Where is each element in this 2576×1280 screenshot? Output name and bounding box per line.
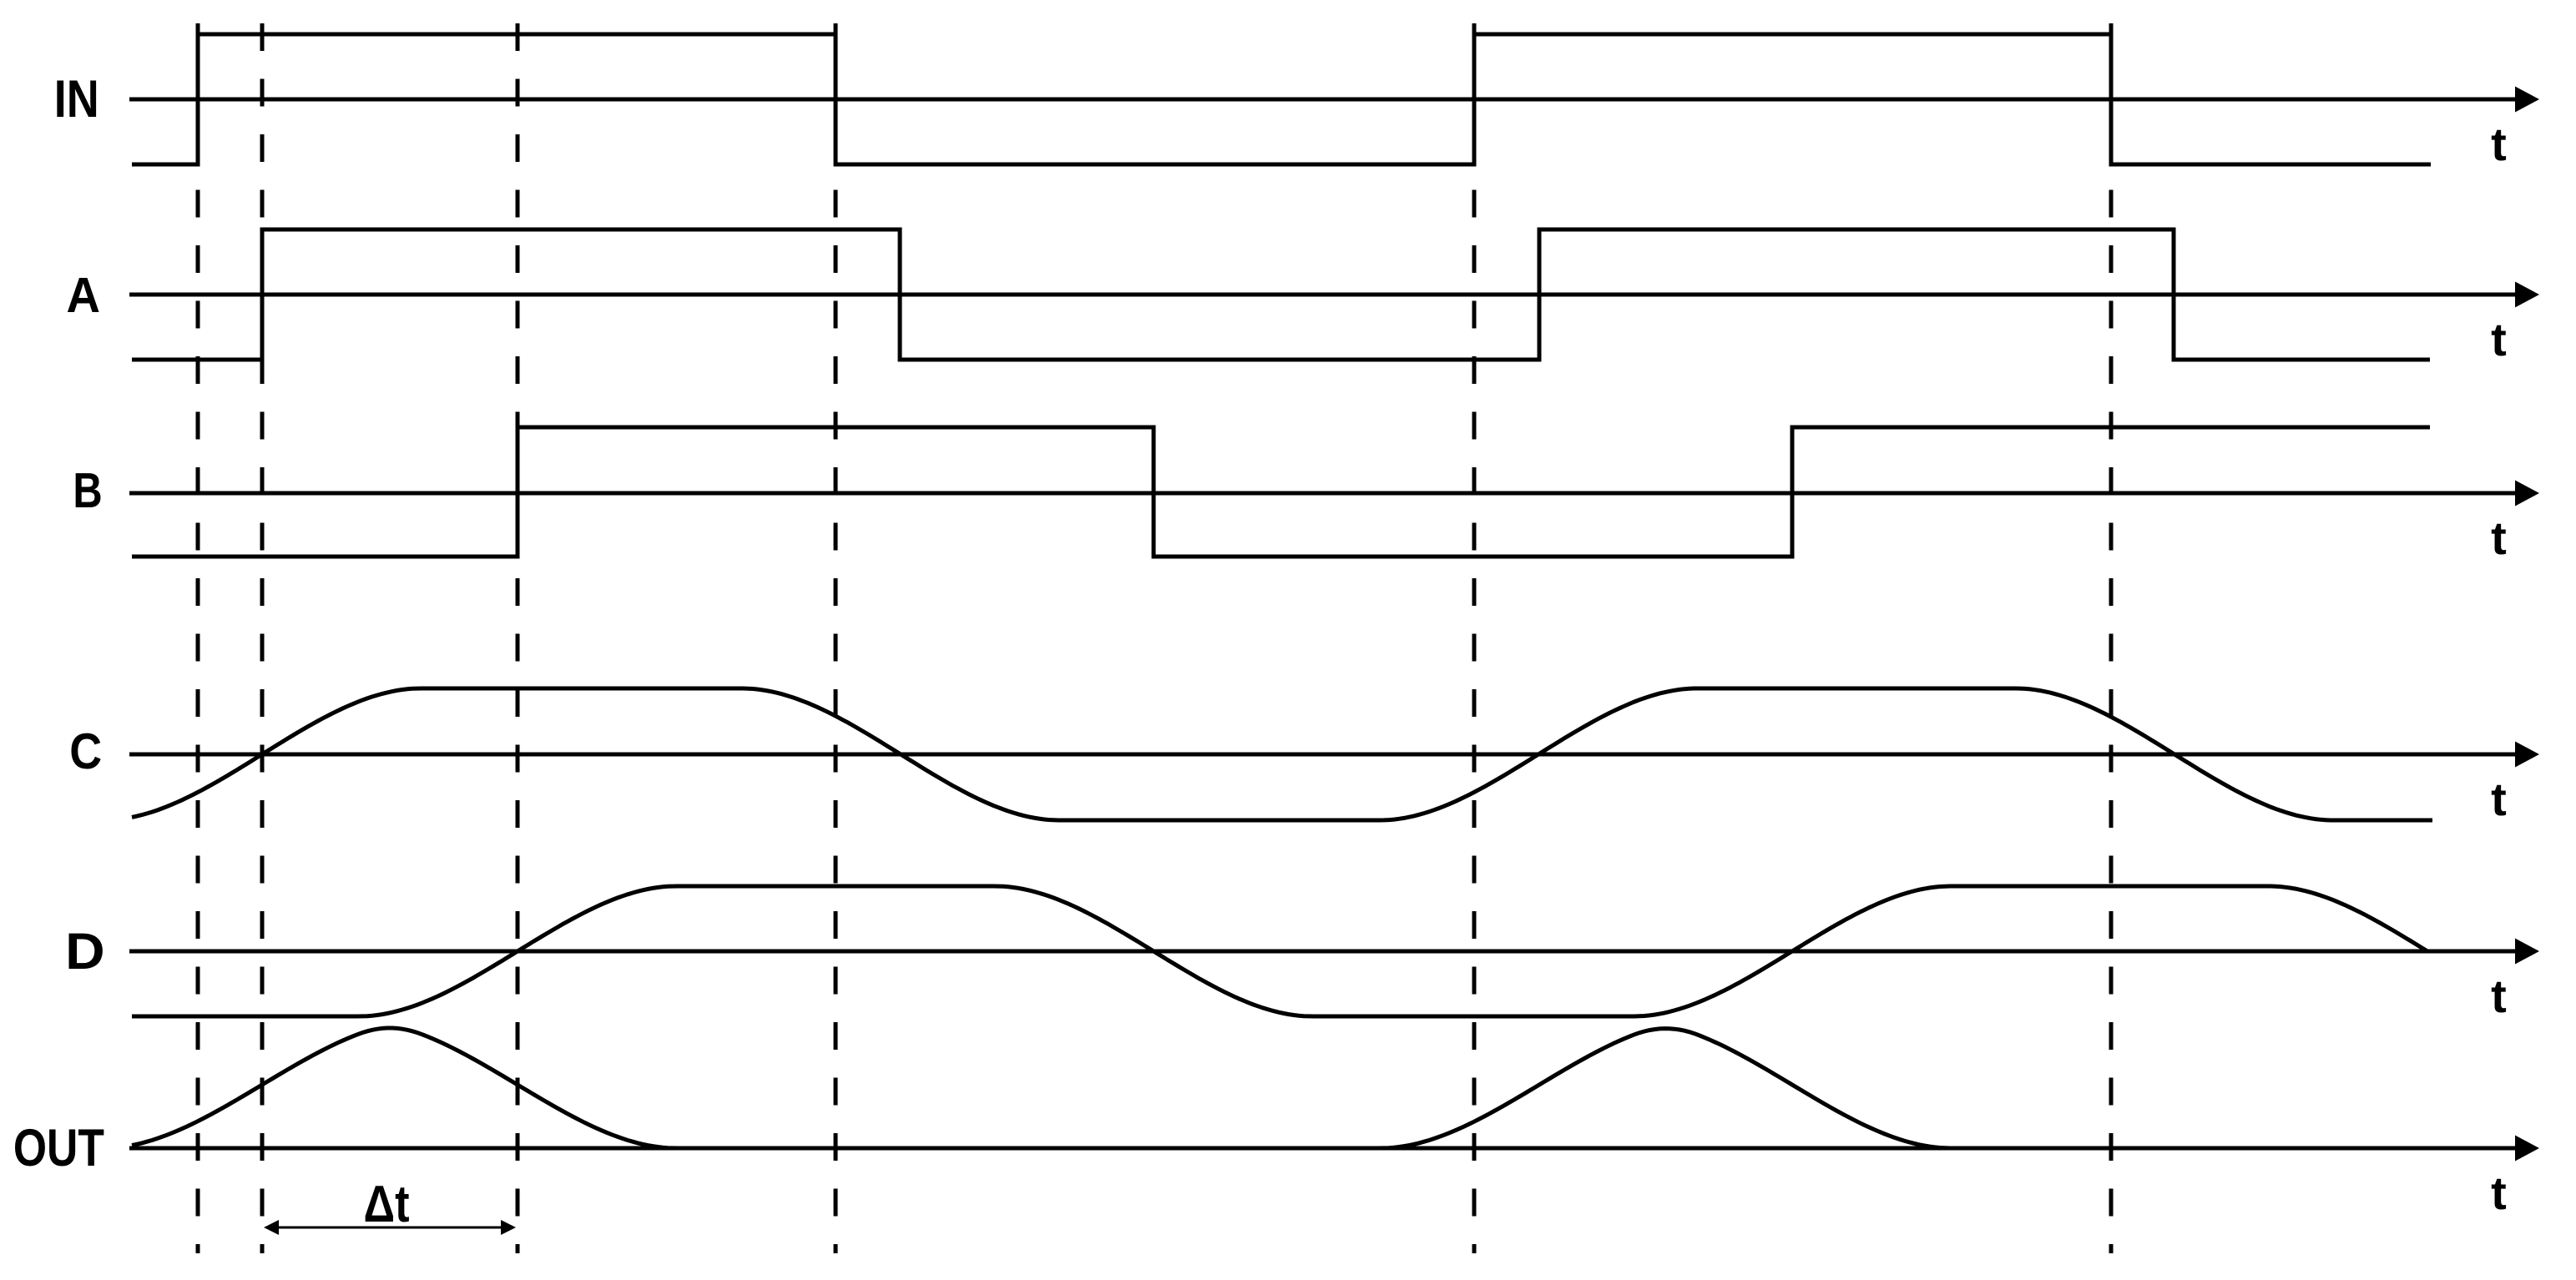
svg-text:OUT: OUT [13,1119,104,1177]
OUT axis line [129,1146,2519,1151]
svg-text:IN: IN [54,70,99,129]
C waveform smooth curve [132,688,2432,820]
IN axis line [129,98,2519,102]
B axis line [129,491,2519,496]
A waveform square wave [132,229,2430,360]
svg-text:t: t [2491,1167,2507,1219]
svg-text:t: t [2491,313,2507,365]
delta-t dimension arrow [271,1227,508,1229]
svg-text:t: t [2491,511,2507,564]
svg-text:Δt: Δt [364,1176,410,1233]
C axis arrowhead [2515,742,2539,768]
dashed guide line 2 (A rise 1) [260,23,265,1253]
IN axis arrowhead [2515,87,2539,113]
dashed guide line 6 (IN fall 2) [2109,23,2114,1253]
svg-text:A: A [67,268,101,323]
svg-text:D: D [65,923,104,980]
svg-text:t: t [2491,970,2507,1022]
C axis line [129,753,2519,757]
A axis line [129,293,2519,297]
svg-text:t: t [2491,773,2507,825]
D axis arrowhead [2515,939,2539,965]
svg-text:t: t [2491,118,2507,170]
A axis arrowhead [2515,282,2539,308]
D waveform smooth curve [132,886,2427,1016]
IN waveform square wave [132,34,2431,164]
OUT waveform pulse curve [132,1028,2430,1148]
svg-text:C: C [69,723,102,779]
B axis arrowhead [2515,481,2539,506]
dashed guide line 5 (IN rise 2) [1472,23,1477,1253]
B waveform square wave [132,427,2430,557]
dashed guide line 1 (IN rise 1) [196,23,200,1253]
dashed guide line 3 (B rise 1) [516,23,520,1253]
svg-text:B: B [73,463,102,518]
OUT axis arrowhead [2515,1136,2539,1162]
dashed guide line 4 (IN fall 1) [834,23,838,1253]
D axis line [129,950,2519,954]
